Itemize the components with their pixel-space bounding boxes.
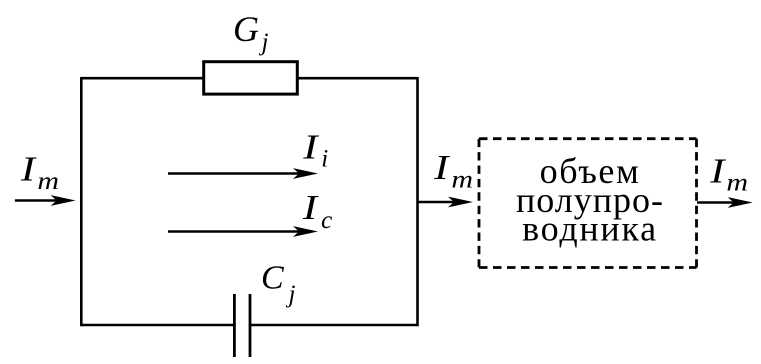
arrow I_m input head [51, 195, 76, 206]
svg-text:I: I [709, 152, 726, 191]
wire bottom-right segment [251, 324, 418, 327]
wire left side [80, 77, 83, 326]
svg-text:m: m [451, 165, 473, 193]
arrow I_i line [168, 172, 300, 175]
svg-text:I: I [302, 128, 319, 167]
wire right side [416, 77, 419, 326]
arrow I_c line [168, 230, 300, 233]
arrow I_m input line [15, 199, 58, 202]
arrow I_m output head [728, 197, 753, 208]
svg-text:j: j [286, 281, 296, 308]
svg-text:I: I [302, 188, 319, 227]
svg-text:m: m [37, 166, 59, 194]
svg-text:m: m [726, 168, 748, 196]
capacitor C_j plate left [233, 294, 236, 357]
arrow I_i head [293, 168, 318, 179]
dashed box bottom edge [479, 266, 697, 269]
arrow I_m middle head [448, 197, 473, 208]
dashed box left edge [478, 139, 481, 268]
svg-text:I: I [433, 148, 450, 187]
arrow I_m middle line [417, 201, 456, 204]
svg-text:G: G [233, 9, 259, 49]
dashed box right edge [695, 139, 698, 268]
svg-text:i: i [321, 146, 328, 173]
svg-text:C: C [261, 260, 284, 297]
dashed box top edge [479, 137, 697, 140]
capacitor C_j plate right [249, 294, 252, 357]
arrow I_m output line [697, 201, 736, 204]
wire bottom-left segment [81, 324, 233, 327]
svg-text:c: c [321, 207, 332, 234]
svg-text:j: j [259, 29, 269, 56]
svg-text:I: I [20, 150, 37, 189]
arrow I_c head [293, 226, 318, 237]
wire top-right segment [296, 77, 418, 80]
svg-text:водника: водника [522, 209, 658, 249]
resistor G_j [204, 62, 298, 94]
wire top-left segment [81, 77, 203, 80]
